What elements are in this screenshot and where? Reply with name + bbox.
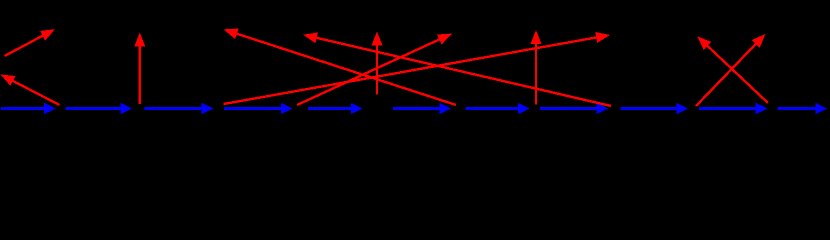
red arrow C (vertical from junction 2) [134,33,145,105]
blue arrow 11 (baseline segment) [778,103,828,114]
red arrow J (vertical from junction 7) [531,30,542,105]
blue arrow 5 (baseline segment) [308,103,363,114]
blue arrow 10 (baseline segment) [699,103,768,114]
red arrow A (floating, up-right, top left) [5,29,56,56]
red arrow D (long, from junction 6 to upper left) [224,29,457,106]
red arrow G (vertical above junction 5) [372,32,383,95]
red arrow F (long, from junction 3 to upper right) [224,32,610,104]
blue arrow 8 (baseline segment) [540,103,608,114]
red arrow K (from junction 9, up-right) [696,34,765,106]
red arrow H (from junction 4, up-right) [297,34,452,105]
blue arrow 4 (baseline segment) [224,103,292,114]
blue arrow 9 (baseline segment) [620,103,688,114]
blue arrow 7 (baseline segment) [466,103,530,114]
red arrow L (from junction 10, up-left) [697,36,768,103]
blue arrow 2 (baseline segment) [65,103,132,114]
blue arrow 3 (baseline segment) [145,103,214,114]
red arrow E (long, from junction 8 to upper left) [303,33,611,107]
blue arrow 1 (baseline segment) [1,103,56,114]
red arrow B (from junction 1, up-left) [1,75,60,106]
blue arrow 6 (baseline segment) [393,103,451,114]
